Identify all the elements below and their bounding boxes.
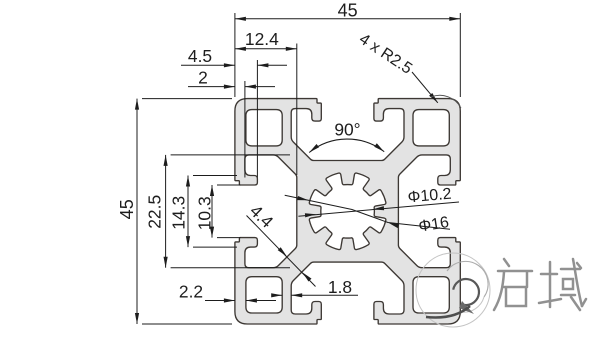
profile body 45x45 extrusion cross-section [235,99,460,324]
svg-text:10.3: 10.3 [195,196,215,230]
svg-text:45: 45 [117,199,137,219]
watermark text: qi yu (hanzi) [494,259,586,310]
dimension 1.8 [272,294,283,296]
dimension 2 [244,81,246,178]
dimension &#934;10.2 leader [298,202,459,216]
dimension 4 x R2.5 leader [412,72,438,103]
svg-text:2: 2 [198,68,208,88]
dimension 4.4 (web thickness leader) [247,216,316,287]
svg-text:22.5: 22.5 [145,195,165,229]
watermark logo Q swoosh [453,279,479,305]
svg-text:14.3: 14.3 [169,196,189,230]
watermark logo circle [416,253,490,327]
dimension 14.3 [193,175,237,177]
dimension 10.3 [217,184,241,186]
svg-text:12.4: 12.4 [245,29,279,49]
dimension 45 (top width) [234,13,236,97]
svg-text:1.8: 1.8 [328,277,352,297]
dimension 4.5 [256,60,258,178]
dimension 2.2 [205,300,235,302]
svg-text:45: 45 [338,1,358,21]
svg-text:2.2: 2.2 [179,282,203,302]
svg-text:90°: 90° [334,120,360,140]
svg-text:4.5: 4.5 [188,46,212,66]
dimension 45 (left height) [142,98,232,100]
dimension 12.4 [296,44,298,176]
dimension 22.5 [171,154,290,156]
dimension 90&#176; arc [309,139,384,152]
dimension &#934;16 leader [285,195,450,229]
